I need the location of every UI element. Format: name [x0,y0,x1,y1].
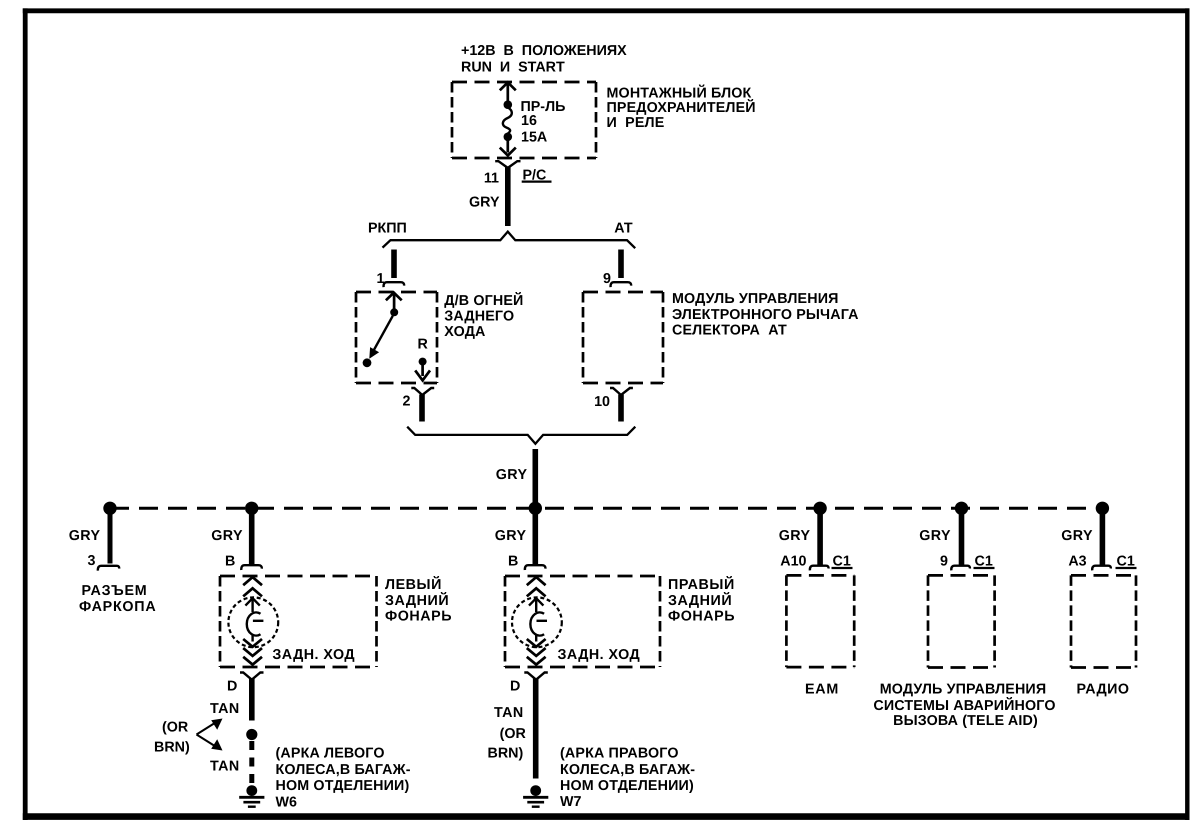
svg-text:И РЕЛЕ: И РЕЛЕ [607,115,665,131]
fuse/relay block label [607,85,756,132]
svg-text:BRN): BRN) [154,740,190,756]
wire from pin 2 [419,395,425,422]
splice bus dashed wire [110,507,1103,510]
svg-text:МОНТАЖНЫЙ БЛОК: МОНТАЖНЫЙ БЛОК [607,85,752,102]
svg-text:GRY: GRY [1061,528,1093,544]
junction node col2 [245,502,258,515]
left rear lamp label [385,576,452,624]
svg-text:МОДУЛЬ УПРАВЛЕНИЯ: МОДУЛЬ УПРАВЛЕНИЯ [672,291,839,307]
wire GRY to Tele Aid module [959,510,965,565]
svg-text:ЗАДНИЙ: ЗАДНИЙ [668,592,732,609]
svg-text:КОЛЕСА,В БАГАЖ-: КОЛЕСА,В БАГАЖ- [276,762,411,778]
OR/BRN pointer arrows [197,719,223,751]
wire to AT module pin 9 [618,250,624,279]
ground W7 [523,785,548,807]
svg-text:ВЫЗОВА (TELE AID): ВЫЗОВА (TELE AID) [893,713,1038,729]
connector C1 radio [1092,566,1111,571]
connector pin D col3 [524,673,548,680]
connector C1 label col5 [974,554,995,570]
svg-text:(АРКА ПРАВОГО: (АРКА ПРАВОГО [560,746,679,762]
right lamp top chevrons [527,577,546,596]
svg-text:D: D [227,679,237,695]
svg-text:GRY: GRY [919,528,951,544]
left lamp location note [276,746,411,794]
svg-text:R: R [418,337,429,353]
svg-text:ЕАМ: ЕАМ [805,681,839,697]
ground W6 [239,785,264,807]
svg-text:ФОНАРЬ: ФОНАРЬ [668,608,735,624]
connector pin 11 [495,161,520,168]
left rear lamp box [220,576,377,667]
fuse/relay block box U1 [452,82,596,158]
wire to reverse switch pin 1 [391,250,397,279]
svg-text:ЗАДН. ХОД: ЗАДН. ХОД [272,647,355,663]
wire GRY to radio [1100,510,1106,565]
svg-text:РАЗЪЕМ: РАЗЪЕМ [82,583,148,599]
right rear lamp label [668,576,735,624]
svg-text:B: B [225,554,235,570]
connector pin B col2 [241,565,262,570]
switch common up arrow [386,293,402,309]
svg-text:ЗАДН. ХОД: ЗАДН. ХОД [558,647,641,663]
wire GRY to left lamp [249,510,255,566]
svg-text:RUN И START: RUN И START [461,60,565,76]
svg-text:+12В В ПОЛОЖЕНИЯХ: +12В В ПОЛОЖЕНИЯХ [461,43,627,59]
svg-text:ЭЛЕКТРОННОГО РЫЧАГА: ЭЛЕКТРОННОГО РЫЧАГА [672,307,859,323]
junction node col5 [955,502,968,515]
trailer connector label [79,583,156,615]
svg-text:GRY: GRY [496,467,528,483]
svg-text:МОДУЛЬ УПРАВЛЕНИЯ: МОДУЛЬ УПРАВЛЕНИЯ [880,681,1047,697]
svg-text:9: 9 [940,554,948,570]
connector C1 EAM [810,566,829,571]
left lamp internal arrow and filament [245,598,263,641]
right lamp internal arrow and filament [529,598,547,641]
svg-text:НОМ ОТДЕЛЕНИИ): НОМ ОТДЕЛЕНИИ) [560,778,694,794]
junction node col3 [529,502,542,515]
wire GRY to trailer connector [108,510,113,564]
svg-text:ПРАВЫЙ: ПРАВЫЙ [668,576,735,593]
wire fuse input with up arrow [500,82,516,101]
switch arm rest contact dot [363,358,372,367]
svg-text:B: B [508,554,518,570]
connector pin 10 [610,388,633,395]
Tele Aid module box [928,575,995,667]
connector pin 2 [411,388,434,395]
svg-text:16: 16 [521,113,537,129]
svg-text:ХОДА: ХОДА [444,324,485,340]
switch R contact dot [419,358,427,366]
dashed wire to ground W6 [249,741,254,784]
svg-text:GRY: GRY [469,195,500,211]
svg-text:BRN): BRN) [488,745,524,761]
svg-text:СЕЛЕКТОРА АТ: СЕЛЕКТОРА АТ [672,322,787,338]
left lamp top chevrons [243,577,262,596]
wire TAN from right lamp [533,679,539,779]
connector pin B col3 [525,565,546,570]
connector pin D col2 [240,673,264,680]
junction node col6 [1096,502,1109,515]
svg-text:ФАРКОПА: ФАРКОПА [79,599,156,615]
svg-text:TAN: TAN [210,701,240,717]
svg-text:РАДИО: РАДИО [1077,681,1130,697]
connector pin 3 [98,566,119,571]
wire GRY from merge to splice [532,449,538,508]
junction node col4 [813,502,826,515]
switch R output arrow [415,364,430,380]
junction node col1 [103,502,116,515]
reverse lights switch box S1 [356,292,437,383]
svg-text:TAN: TAN [494,705,524,721]
svg-text:СИСТЕМЫ АВАРИЙНОГО: СИСТЕМЫ АВАРИЙНОГО [873,697,1055,714]
(OR BRN) label [154,720,190,756]
AT module label [672,291,859,338]
merge brace [407,427,635,444]
svg-text:ЛЕВЫЙ: ЛЕВЫЙ [385,576,442,593]
svg-text:GRY: GRY [69,528,101,544]
wire GRY from fuse to split [505,167,511,226]
right rear lamp box [505,576,660,667]
node +12V RUN/START feed label [461,43,627,76]
svg-text:РКПП: РКПП [368,220,407,236]
EAM box [786,575,854,667]
wire TAN from left lamp [249,679,255,721]
svg-text:11: 11 [484,171,499,187]
svg-text:15А: 15А [521,130,547,146]
svg-text:Д/В ОГНЕЙ: Д/В ОГНЕЙ [444,292,523,309]
svg-text:АТ: АТ [614,220,633,236]
wire GRY to right lamp [532,510,538,566]
left lamp bottom chevrons [243,639,262,665]
svg-text:(АРКА ЛЕВОГО: (АРКА ЛЕВОГО [276,746,385,762]
svg-text:ПРЕДОХРАНИТЕЛЕЙ: ПРЕДОХРАНИТЕЛЕЙ [607,99,756,116]
svg-text:W6: W6 [276,794,297,810]
connector C1 Tele Aid [951,566,970,571]
splice dot W6 wire [246,729,257,740]
svg-text:ЗАДНИЙ: ЗАДНИЙ [385,592,449,609]
fuse value labels ПР-ЛЬ 16 15А [521,99,566,146]
reverse switch label [444,292,523,340]
split brace to РКПП / АТ [383,232,636,249]
svg-text:(OR: (OR [162,720,189,736]
svg-text:2: 2 [403,394,411,410]
wire from pin 10 [618,395,624,422]
wire GRY to EAM [817,510,823,565]
connector pin 1 [384,282,405,287]
radio box [1071,575,1136,667]
AT selector lever control module box U2 [583,292,663,383]
svg-text:НОМ ОТДЕЛЕНИИ): НОМ ОТДЕЛЕНИИ) [276,778,410,794]
connector C1 label col4 [832,554,853,570]
wire label TAN (OR BRN) col3 [488,705,527,761]
switch arm with arrowhead [369,316,393,359]
svg-text:GRY: GRY [211,528,243,544]
right lamp bottom chevrons [527,639,546,665]
Tele Aid module label [873,681,1055,729]
svg-text:3: 3 [88,553,96,569]
fuse F16 15A [503,100,512,141]
svg-text:ФОНАРЬ: ФОНАРЬ [385,608,452,624]
svg-text:D: D [510,679,520,695]
svg-text:ЗАДНЕГО: ЗАДНЕГО [444,308,514,324]
svg-text:A3: A3 [1068,554,1086,570]
net P/C label [522,168,552,184]
wire fuse output with down arrow [500,140,516,156]
right lamp location note [560,746,695,794]
connector pin 9 [611,282,632,287]
connector C1 label col6 [1116,554,1137,570]
svg-text:GRY: GRY [495,528,527,544]
left lamp bulb circle [228,597,278,647]
svg-text:A10: A10 [780,554,806,570]
svg-text:GRY: GRY [779,528,811,544]
svg-text:10: 10 [594,394,610,410]
switch pivot dot [390,308,398,316]
svg-text:W7: W7 [560,794,581,810]
svg-text:(OR: (OR [500,726,527,742]
svg-text:TAN: TAN [210,759,240,775]
right lamp bulb circle [512,597,562,647]
svg-text:КОЛЕСА,В БАГАЖ-: КОЛЕСА,В БАГАЖ- [560,762,695,778]
